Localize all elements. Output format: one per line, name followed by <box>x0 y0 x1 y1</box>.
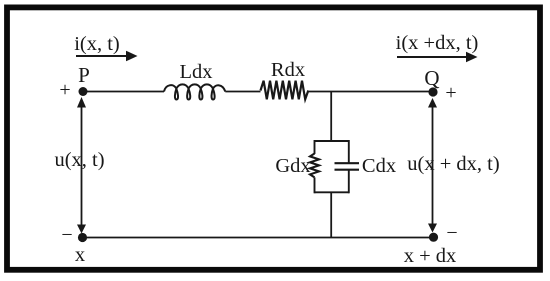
wire top: inductor to resistor <box>225 91 260 93</box>
label Gdx <box>275 155 310 177</box>
label Cdx <box>362 155 396 177</box>
wire shunt box bottom <box>315 191 349 193</box>
wire shunt box right lower <box>348 170 350 194</box>
arrow current left <box>76 51 138 62</box>
svg-text:u(x, t): u(x, t) <box>54 149 104 171</box>
label Rdx <box>271 59 305 81</box>
wire top: resistor to Q <box>308 91 433 93</box>
plus sign right <box>445 82 456 104</box>
plus sign left <box>59 79 70 101</box>
node Q <box>428 87 437 96</box>
svg-text:Gdx: Gdx <box>275 155 310 177</box>
minus sign bottom right <box>446 222 457 244</box>
minus sign bottom left <box>61 224 72 246</box>
svg-text:Rdx: Rdx <box>271 59 305 81</box>
svg-text:u(x + dx, t): u(x + dx, t) <box>407 153 499 175</box>
wire top: P to inductor <box>83 91 164 93</box>
inductor Ldx <box>164 84 225 99</box>
arrow voltage right (double-headed) <box>428 98 437 233</box>
label Ldx <box>179 61 212 83</box>
capacitor Cdx <box>335 163 360 170</box>
label x + dx <box>404 245 457 267</box>
wire shunt top feed <box>330 92 332 142</box>
svg-text:Q: Q <box>424 66 439 90</box>
wire shunt box left lower <box>314 177 316 193</box>
svg-text:+: + <box>59 79 70 101</box>
resistor Rdx <box>261 81 309 100</box>
svg-text:i(x +dx, t): i(x +dx, t) <box>396 32 479 54</box>
wire shunt box top <box>315 140 349 142</box>
resistor Gdx <box>310 154 319 178</box>
svg-text:P: P <box>78 63 90 87</box>
svg-text:x + dx: x + dx <box>404 245 457 267</box>
label u(x, t) <box>54 149 104 171</box>
svg-text:Ldx: Ldx <box>179 61 212 83</box>
wire shunt bottom feed <box>330 192 332 237</box>
node bottom right <box>429 233 438 242</box>
label x <box>75 244 85 266</box>
arrow voltage left (double-headed) <box>77 97 86 234</box>
svg-text:+: + <box>445 82 456 104</box>
node P <box>79 87 88 96</box>
svg-text:−: − <box>61 224 72 246</box>
arrow current right <box>397 52 478 63</box>
wire bottom rail <box>83 237 434 239</box>
label i(x +dx, t) <box>396 32 479 54</box>
svg-text:Cdx: Cdx <box>362 155 396 177</box>
label P <box>78 63 90 87</box>
svg-text:x: x <box>75 244 85 266</box>
node bottom left <box>78 233 87 242</box>
label i(x, t) <box>74 33 120 55</box>
label Q <box>424 66 439 90</box>
label u(x + dx, t) <box>407 153 499 175</box>
svg-text:i(x, t): i(x, t) <box>74 33 120 55</box>
wire shunt box left upper <box>314 140 316 154</box>
svg-text:−: − <box>446 222 457 244</box>
wire shunt box right upper <box>348 140 350 163</box>
